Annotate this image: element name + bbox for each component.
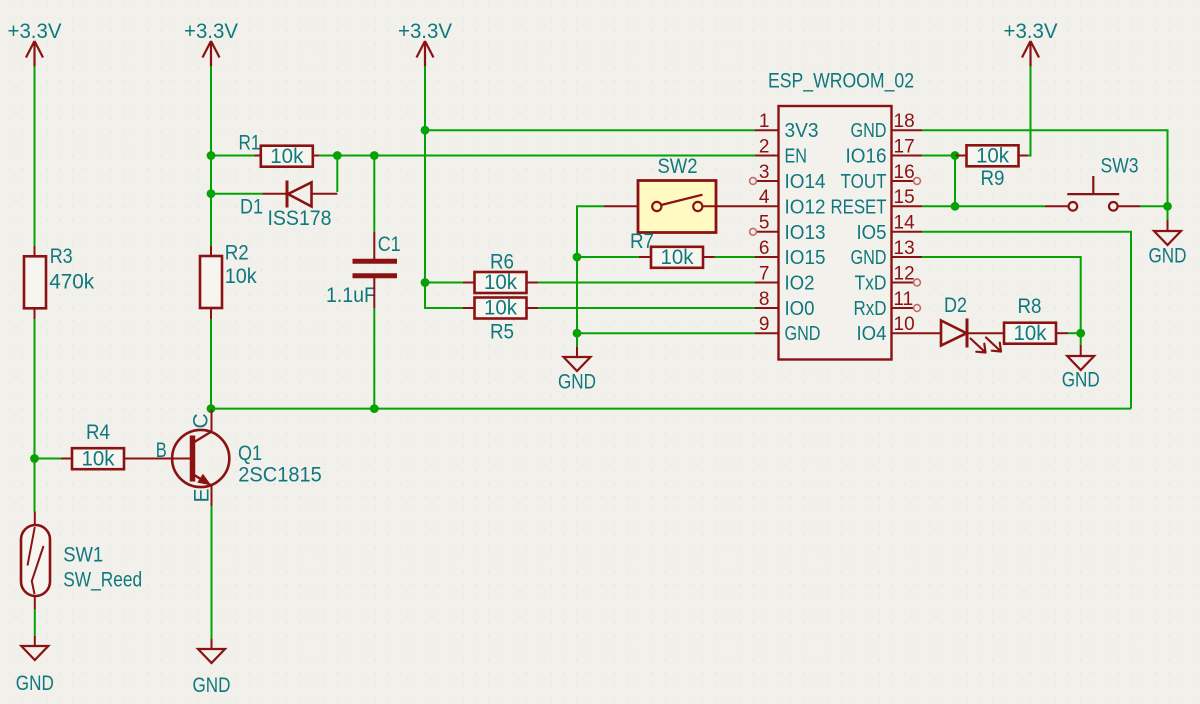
wire R1 left pin: [255, 155, 261, 157]
junction D1 row junction: [207, 189, 216, 198]
junction R7 row junction: [573, 253, 582, 262]
power symbol +3.3V (PWR3 ESP column) arrow: [417, 41, 434, 67]
IC U1 pin 8 stub: [755, 307, 779, 309]
svg-text:2SC1815: 2SC1815: [238, 464, 321, 487]
LED D2 cathode bar: [966, 319, 969, 348]
junction R1 row junction: [207, 151, 216, 160]
svg-text:IO5: IO5: [857, 222, 887, 244]
svg-text:R9: R9: [981, 167, 1005, 190]
IC U1 pin 18 stub: [892, 129, 923, 131]
wire net SW3 GND stem green: [1167, 206, 1169, 220]
wire GND5 stem: [211, 639, 213, 649]
ground symbol GND1 under SW1: [21, 646, 48, 660]
svg-text:4: 4: [759, 187, 770, 208]
svg-text:C: C: [190, 413, 213, 428]
svg-text:B: B: [156, 439, 167, 462]
junction SW3 right junction: [1163, 202, 1172, 211]
svg-text:R4: R4: [86, 421, 110, 444]
IC U1 pin 4 stub: [755, 205, 779, 207]
svg-text:2: 2: [759, 136, 770, 157]
svg-text:3: 3: [759, 162, 770, 183]
IC U1 pin 14 stub: [892, 231, 923, 233]
svg-text:C1: C1: [378, 233, 401, 256]
wire R3 bottom pin: [34, 308, 36, 319]
switch SW2 highlighted body: [638, 181, 716, 233]
wire net RESET to SW3: [955, 205, 1045, 207]
LED D2 triangle: [941, 321, 967, 346]
wire net EN row to ESP pin 2: [374, 155, 755, 157]
resistor R5 body: [475, 298, 527, 319]
svg-text:+3.3V: +3.3V: [1004, 20, 1058, 43]
wire C1 top pin: [373, 232, 375, 259]
svg-text:SW1: SW1: [63, 544, 103, 567]
svg-text:7: 7: [759, 263, 770, 284]
svg-text:R1: R1: [239, 132, 261, 155]
resistor R8 body: [1004, 323, 1056, 344]
wire net x577 down to GND row: [576, 257, 578, 333]
wire R9 left pin: [955, 155, 967, 157]
svg-text:IO16: IO16: [846, 146, 887, 168]
IC U1 pin 2 stub: [755, 155, 779, 157]
svg-text:IO12: IO12: [785, 196, 826, 218]
junction C1 top junction: [370, 151, 379, 160]
svg-text:13: 13: [894, 238, 915, 259]
svg-text:GND: GND: [1149, 245, 1187, 268]
switch SW2 contacts and lever: [652, 202, 661, 211]
switch SW3 actuator bar and stem: [1067, 176, 1119, 194]
wire net EN row to C1 junction: [337, 155, 374, 157]
ground symbol GND3 under SW3: [1154, 231, 1181, 245]
IC U1 pin 1 stub: [755, 129, 779, 131]
svg-text:10k: 10k: [484, 297, 517, 320]
svg-text:12: 12: [894, 263, 915, 284]
diode D1 cathode bar: [286, 181, 289, 208]
wire R7 right pin: [703, 256, 715, 258]
wire net D1 row: [211, 193, 263, 195]
unconnected pin marker pin 16: [914, 178, 921, 185]
power symbol +3.3V (PWR2 R1/R2 column) arrow: [203, 41, 220, 67]
junction GND row junction: [573, 329, 582, 338]
svg-text:10k: 10k: [225, 265, 257, 288]
transistor Q1 base lead: [124, 458, 190, 460]
svg-text:SW2: SW2: [658, 155, 698, 178]
svg-text:14: 14: [894, 213, 916, 234]
svg-text:RxD: RxD: [854, 298, 887, 320]
svg-text:9: 9: [759, 314, 770, 335]
svg-text:GND: GND: [193, 674, 231, 697]
svg-text:10k: 10k: [661, 246, 694, 269]
wire C1 bottom pin: [373, 278, 375, 308]
switch SW2 right pin to ESP pin 4: [702, 205, 755, 207]
junction R8 right junction: [1076, 329, 1085, 338]
svg-text:470k: 470k: [49, 271, 94, 294]
junction RESET row junction: [951, 202, 960, 211]
wire net +3.3V column C segment: [424, 66, 426, 130]
capacitor C1 plates: [353, 261, 398, 276]
IC U1 pin 3 stub (unconnected): [757, 180, 779, 182]
svg-text:GND: GND: [851, 120, 887, 142]
transistor Q1 body circle: [172, 430, 229, 487]
wire net R1 to D1 feedback junction: [319, 155, 337, 157]
wire net GND row to ESP pin 9: [577, 332, 755, 334]
IC U1 pin 15 stub: [892, 205, 923, 207]
transistor Q1 base bar: [190, 436, 196, 482]
wire net +3.3V column B segment: [210, 66, 212, 156]
junction R4 row junction: [30, 454, 39, 463]
LED D2 cathode lead to R8: [967, 332, 1004, 334]
wire R2 bottom pin: [210, 308, 212, 319]
unconnected pin marker pin 12: [914, 279, 921, 286]
svg-text:IO13: IO13: [785, 222, 826, 244]
IC U1 pin 7 stub: [755, 282, 779, 284]
wire Q1 emitter pin: [211, 486, 213, 506]
wire net ESP pin17 to R9 junction: [922, 155, 955, 157]
wire net R9 junction down to RESET row: [954, 156, 956, 207]
svg-text:+3.3V: +3.3V: [8, 20, 62, 43]
resistor R4 body: [72, 448, 124, 469]
svg-text:ISS178: ISS178: [268, 207, 332, 230]
wire net x577 GND stem green: [576, 333, 578, 347]
svg-text:IO15: IO15: [785, 247, 826, 269]
unconnected pin marker pin 5: [750, 228, 757, 235]
wire R3 top pin: [34, 246, 36, 257]
power symbol +3.3V (PWR1 left column) arrow: [26, 41, 43, 67]
wire net junction to SW1: [34, 459, 36, 512]
svg-text:18: 18: [894, 111, 915, 132]
wire net ESP pin18 GND row: [922, 130, 1168, 206]
wire net column C down to R6: [424, 130, 426, 282]
wire R9 right pin: [1019, 155, 1029, 157]
resistor R2 body: [200, 256, 222, 308]
wire D1 cathode pin: [263, 193, 288, 195]
wire SW1 top pin: [34, 512, 36, 526]
wire net SW1 to GND: [34, 609, 36, 636]
switch SW2 left pin: [604, 205, 652, 207]
wire GND1 stem: [34, 636, 36, 646]
svg-text:IO4: IO4: [857, 323, 887, 345]
svg-text:EN: EN: [785, 146, 808, 168]
svg-text:RESET: RESET: [831, 196, 887, 218]
wire R2 top pin: [210, 246, 212, 256]
svg-text:IO2: IO2: [785, 273, 815, 295]
wire net ESP pin15 RESET row: [922, 205, 955, 207]
wire R6 left pin: [463, 282, 475, 284]
svg-text:10k: 10k: [82, 447, 115, 470]
wire net R5 to ESP pin 8: [538, 307, 755, 309]
svg-text:GND: GND: [851, 247, 887, 269]
transistor Q1 collector stroke: [194, 432, 212, 443]
wire R7 left pin: [639, 256, 651, 258]
ground symbol GND4 under R8: [1067, 356, 1094, 370]
wire R5 right pin: [527, 307, 539, 309]
wire net column B to R2: [210, 194, 212, 246]
svg-text:Q1: Q1: [238, 442, 262, 465]
wire R6 right pin: [527, 282, 539, 284]
wire R8 right pin: [1056, 332, 1068, 334]
svg-text:IO0: IO0: [785, 298, 815, 320]
wire net C1 bottom wire: [373, 308, 375, 409]
wire R5 left pin: [463, 307, 475, 309]
IC U1 pin 13 stub: [892, 256, 923, 258]
resistor R6 body: [475, 272, 527, 293]
svg-text:10k: 10k: [484, 271, 517, 294]
junction collector bus / C1 junction: [370, 404, 379, 413]
svg-text:10k: 10k: [270, 145, 303, 168]
svg-text:IO14: IO14: [785, 171, 826, 193]
wire net R4 row left: [35, 458, 62, 460]
junction R6 row junction: [421, 278, 430, 287]
svg-text:8: 8: [759, 289, 770, 310]
wire net R3 to SW1/R4 junction: [34, 319, 36, 459]
IC U1 pin 9 stub: [755, 332, 779, 334]
wire net column B to D1 row: [210, 156, 212, 194]
svg-text:17: 17: [894, 136, 915, 157]
reed switch SW1 contact blades: [28, 527, 44, 594]
svg-text:10: 10: [894, 314, 915, 335]
wire net Q1 emitter to GND: [211, 506, 213, 639]
junction ESP 3V3 junction: [421, 126, 430, 135]
switch SW3 left pin: [1045, 205, 1069, 207]
svg-text:1.1uF: 1.1uF: [326, 284, 376, 307]
IC U1 pin 12 stub (unconnected): [892, 282, 914, 284]
svg-text:R3: R3: [50, 245, 73, 268]
svg-text:R8: R8: [1018, 295, 1042, 318]
svg-text:ESP_WROOM_02: ESP_WROOM_02: [768, 70, 914, 93]
svg-text:GND: GND: [1062, 369, 1100, 392]
wire net SW3 to GND rail: [1140, 205, 1168, 207]
unconnected pin marker pin 11: [914, 305, 921, 312]
IC U1 pin 10 stub: [892, 332, 923, 334]
wire net ESP pin14 IO5 loop: [922, 232, 1131, 409]
svg-text:TOUT: TOUT: [841, 171, 887, 193]
junction R1/D1 junction: [333, 151, 342, 160]
svg-text:11: 11: [894, 289, 914, 310]
svg-text:E: E: [191, 488, 214, 502]
svg-text:D1: D1: [240, 196, 263, 219]
svg-text:6: 6: [759, 238, 770, 259]
svg-text:5: 5: [759, 213, 770, 234]
wire net R9 to +3.3V: [1028, 66, 1031, 156]
svg-text:+3.3V: +3.3V: [398, 20, 452, 43]
wire net +3.3V column A segment: [34, 66, 36, 246]
wire R1 right pin: [313, 155, 319, 157]
svg-text:SW_Reed: SW_Reed: [63, 569, 142, 592]
svg-text:15: 15: [894, 187, 915, 208]
IC U1 pin 6 stub: [755, 256, 779, 258]
wire net R6 to ESP pin 7: [538, 282, 755, 284]
svg-text:GND: GND: [558, 371, 596, 394]
LED D2 emission arrows: [971, 338, 1002, 353]
wire net SW2 left corner: [577, 206, 604, 257]
wire net R1 row left: [211, 155, 255, 157]
wire net 3V3 row to ESP pin 1: [425, 129, 755, 131]
wire Q1 collector pin: [211, 410, 213, 432]
ground symbol GND2 under SW2 column: [564, 357, 591, 371]
wire GND2 stem: [576, 347, 578, 357]
resistor R9 body: [967, 145, 1019, 166]
IC U1 pin 17 stub: [892, 155, 923, 157]
svg-text:GND: GND: [16, 672, 54, 695]
switch SW3 right pin: [1118, 205, 1140, 207]
junction R9 left junction: [951, 151, 960, 160]
wire net R6 row left: [425, 282, 463, 284]
diode D1 triangle: [288, 182, 312, 206]
IC U1 ESP_WROOM_02 body: [779, 106, 892, 360]
resistor R1 body: [261, 146, 313, 167]
svg-text:+3.3V: +3.3V: [184, 20, 238, 43]
wire R4 left pin: [61, 458, 72, 460]
wire GND3 stem: [1167, 220, 1169, 231]
junction collector bus / Q1 junction: [207, 404, 216, 413]
wire SW1 bottom pin: [34, 596, 36, 609]
svg-text:GND: GND: [785, 323, 821, 345]
wire net collector bus: [211, 408, 1131, 410]
svg-text:R7: R7: [630, 230, 654, 253]
IC U1 pin 11 stub (unconnected): [892, 307, 914, 309]
resistor R3 body: [24, 256, 46, 308]
svg-text:16: 16: [894, 162, 915, 183]
svg-text:1: 1: [759, 111, 770, 132]
unconnected pin marker pin 3: [750, 178, 757, 185]
svg-text:D2: D2: [944, 294, 967, 317]
svg-text:R5: R5: [490, 321, 514, 344]
svg-text:R2: R2: [225, 242, 249, 265]
svg-text:3V3: 3V3: [785, 120, 819, 142]
wire net R7 to ESP pin 6: [715, 256, 756, 258]
transistor Q1 emitter stroke with arrow: [194, 475, 212, 486]
wire net R7 row left: [577, 256, 639, 258]
wire D1 anode pin: [312, 193, 338, 195]
wire net D1 anode up to R1 output: [336, 156, 338, 193]
IC U1 pin 16 stub (unconnected): [892, 180, 914, 182]
IC U1 pin 5 stub (unconnected): [757, 231, 779, 233]
power symbol +3.3V (PWR4 R9 column) arrow: [1022, 41, 1039, 67]
wire GND4 stem green: [1080, 333, 1082, 345]
net ESP pin10 to D2 anode: [922, 332, 941, 334]
svg-text:10k: 10k: [976, 145, 1009, 168]
ground symbol GND5 under Q1: [198, 649, 225, 663]
reed switch SW1 body: [21, 525, 50, 596]
wire net R2 to collector junction: [210, 319, 212, 409]
switch SW3 right contact: [1109, 202, 1118, 211]
svg-text:10k: 10k: [1014, 322, 1047, 345]
wire GND4 stem: [1080, 345, 1082, 356]
wire net column C down to R5 row corner: [425, 283, 463, 309]
svg-text:TxD: TxD: [855, 273, 887, 295]
resistor R7 body: [651, 247, 703, 268]
svg-text:SW3: SW3: [1101, 155, 1139, 178]
wire net ESP pin13 row: [922, 257, 1081, 333]
wire net C1 top wire: [373, 156, 375, 233]
wire net R8 to junction: [1068, 332, 1081, 334]
switch SW3 left contact: [1069, 202, 1078, 211]
svg-text:R6: R6: [490, 251, 514, 274]
